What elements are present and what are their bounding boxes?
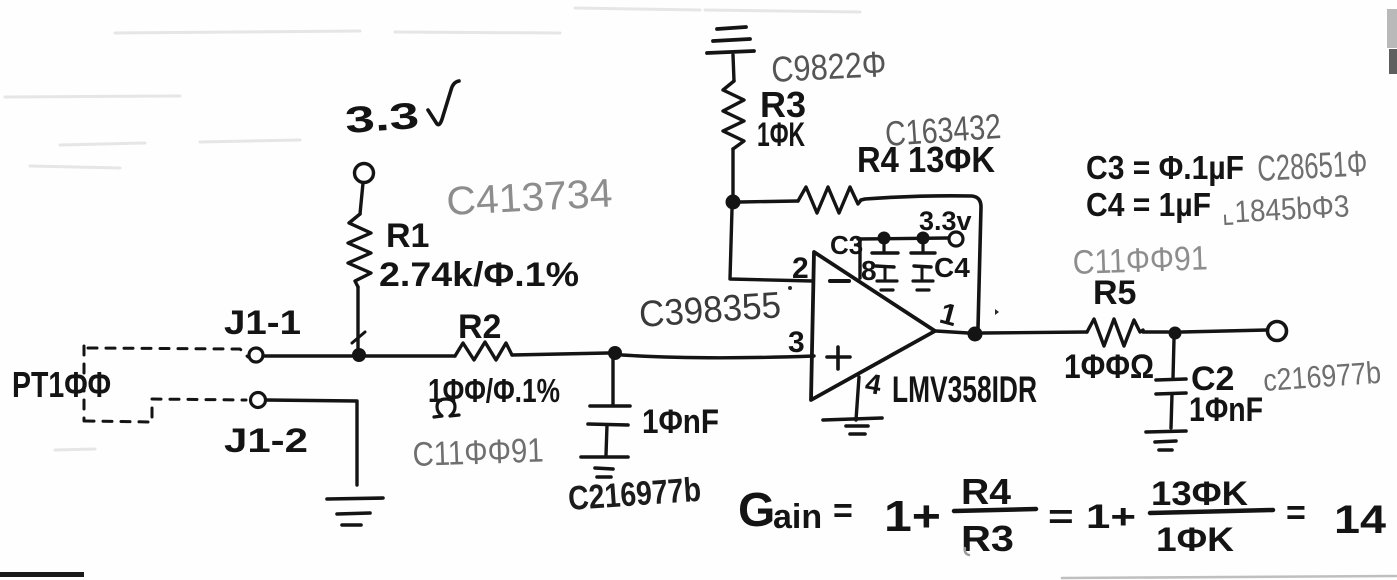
resistor R3 bbox=[723, 81, 744, 149]
node C4 on rail bbox=[917, 232, 930, 245]
op-amp U1 triangle bbox=[811, 252, 935, 400]
wire node E to output terminal bbox=[1182, 330, 1267, 332]
svg-text:R3: R3 bbox=[961, 518, 1014, 559]
svg-text:R2: R2 bbox=[458, 308, 501, 346]
svg-text:3.3: 3.3 bbox=[344, 95, 421, 141]
node E junction bbox=[1169, 327, 1182, 340]
svg-text:1+: 1+ bbox=[884, 492, 941, 541]
3.3V rail bbox=[858, 238, 948, 239]
wire node B to op-amp pin3 bbox=[622, 355, 814, 358]
terminal 3.3V (rail) bbox=[949, 232, 963, 246]
ground (pin 4) bbox=[823, 418, 882, 434]
svg-text:J1-1: J1-1 bbox=[224, 304, 301, 342]
plus sign pin3 bbox=[827, 347, 850, 369]
gain formula bbox=[738, 471, 1387, 559]
wire node C to R4 bbox=[740, 201, 798, 202]
svg-text:C4: C4 bbox=[934, 252, 970, 283]
svg-text:C28651Φ: C28651Φ bbox=[1256, 142, 1368, 189]
top-right scan strips bbox=[1387, 9, 1397, 48]
fraction bar R4/R3 bbox=[954, 509, 1036, 511]
wire R5 to node E bbox=[1143, 330, 1168, 333]
fraction bar 130K/10K bbox=[1150, 510, 1273, 513]
ground (top of R3) bbox=[707, 27, 754, 53]
svg-text:1ΦΦ/Φ.1%: 1ΦΦ/Φ.1% bbox=[428, 372, 560, 409]
wire ground to R3 bbox=[733, 55, 734, 81]
svg-text:=: = bbox=[833, 492, 853, 530]
wire node D to R5 bbox=[983, 332, 1087, 333]
faint paper streaks bbox=[5, 8, 860, 450]
svg-text:2: 2 bbox=[792, 252, 809, 285]
wire J1-2 to ground bbox=[266, 400, 357, 485]
svg-text:⌞1845bΦ3: ⌞1845bΦ3 bbox=[1221, 188, 1351, 230]
resistor R5 bbox=[1087, 319, 1143, 346]
capacitor C3 bbox=[882, 244, 885, 252]
svg-text:C11ΦΦ91: C11ΦΦ91 bbox=[1072, 239, 1208, 282]
ground (C1) bbox=[581, 457, 628, 477]
svg-text:1ΦK: 1ΦK bbox=[757, 116, 805, 154]
wire R4 to feedback node bbox=[861, 196, 981, 328]
svg-text:1ΦnF: 1ΦnF bbox=[642, 403, 719, 441]
capacitor C1 10nF bbox=[611, 358, 614, 405]
ink speck near output bbox=[995, 309, 999, 315]
svg-text:C9822Φ: C9822Φ bbox=[770, 43, 887, 90]
svg-text:G: G bbox=[738, 484, 775, 537]
terminal 3.3V (R1 top) bbox=[355, 164, 374, 183]
svg-text:J1-2: J1-2 bbox=[224, 422, 308, 460]
checkmark V of 3.3V bbox=[428, 81, 459, 125]
wire R2 to node B bbox=[512, 353, 608, 355]
ink speck near pin2 bbox=[788, 286, 792, 290]
connector J1-2 bbox=[251, 393, 266, 408]
minus sign pin2 bbox=[830, 279, 849, 283]
wire pin 4 to ground bbox=[856, 377, 859, 420]
svg-text:13ΦK: 13ΦK bbox=[1151, 475, 1248, 513]
wire pin 8 to 3.3V rail bbox=[858, 239, 861, 278]
svg-text:14: 14 bbox=[1334, 498, 1387, 542]
svg-text:C3 = Φ.1µF: C3 = Φ.1µF bbox=[1086, 149, 1244, 186]
node C3 on rail bbox=[878, 232, 891, 245]
tick mark on R1 wire bbox=[352, 332, 365, 343]
capacitor C4 bbox=[921, 244, 924, 252]
svg-text:C3: C3 bbox=[830, 230, 863, 260]
bottom-left scan mark bbox=[0, 572, 84, 577]
svg-text:ain: ain bbox=[773, 498, 822, 536]
svg-text:= 1+: = 1+ bbox=[1048, 498, 1136, 536]
svg-text:=: = bbox=[1286, 494, 1306, 532]
svg-text:R4: R4 bbox=[961, 471, 1011, 512]
svg-text:R4 13ΦK: R4 13ΦK bbox=[857, 139, 995, 180]
svg-text:PT1ΦΦ: PT1ΦΦ bbox=[12, 364, 111, 405]
svg-text:LMV358IDR: LMV358IDR bbox=[892, 369, 1037, 410]
node B junction bbox=[608, 346, 622, 360]
ground (J1-2) bbox=[327, 498, 383, 525]
svg-text:1ΦK: 1ΦK bbox=[1156, 521, 1234, 559]
PT100 dashed outline bbox=[84, 346, 248, 422]
ohm squiggle under R2 value bbox=[434, 399, 459, 417]
capacitor C2 bbox=[1173, 339, 1174, 378]
wire node C down to op-amp pin 2 bbox=[730, 209, 813, 281]
wire R1 bottom to node A bbox=[356, 287, 359, 350]
svg-text:1ΦΦΩ: 1ΦΦΩ bbox=[1064, 348, 1154, 386]
svg-text:1ΦnF: 1ΦnF bbox=[1189, 391, 1263, 429]
svg-text:C4 = 1µF: C4 = 1µF bbox=[1086, 186, 1211, 223]
svg-text:R1: R1 bbox=[386, 217, 429, 255]
svg-text:8: 8 bbox=[861, 255, 877, 286]
terminal OUT bbox=[1268, 322, 1287, 341]
ground (C2) bbox=[1146, 431, 1186, 450]
node C junction bbox=[726, 195, 741, 210]
svg-text:C11ΦΦ91: C11ΦΦ91 bbox=[412, 431, 544, 474]
resistor R1 bbox=[348, 214, 371, 287]
svg-text:C413734: C413734 bbox=[445, 171, 613, 224]
node A junction bbox=[352, 348, 366, 362]
net 3.3V label (top left) bbox=[344, 95, 421, 141]
resistor R4 bbox=[798, 187, 861, 213]
svg-text:2.74k/Φ.1%: 2.74k/Φ.1% bbox=[379, 256, 579, 294]
wire J1-1 to node A bbox=[263, 354, 352, 357]
resistor R2 bbox=[455, 342, 512, 360]
svg-text:3.3v: 3.3v bbox=[919, 206, 972, 236]
node D junction bbox=[968, 327, 983, 342]
wire R3 to node C bbox=[731, 149, 734, 196]
wire node A to R2 bbox=[366, 354, 455, 357]
svg-text:3: 3 bbox=[788, 326, 805, 359]
wire terminal to R1 bbox=[360, 183, 363, 214]
wire op-amp output to node D bbox=[936, 331, 968, 333]
